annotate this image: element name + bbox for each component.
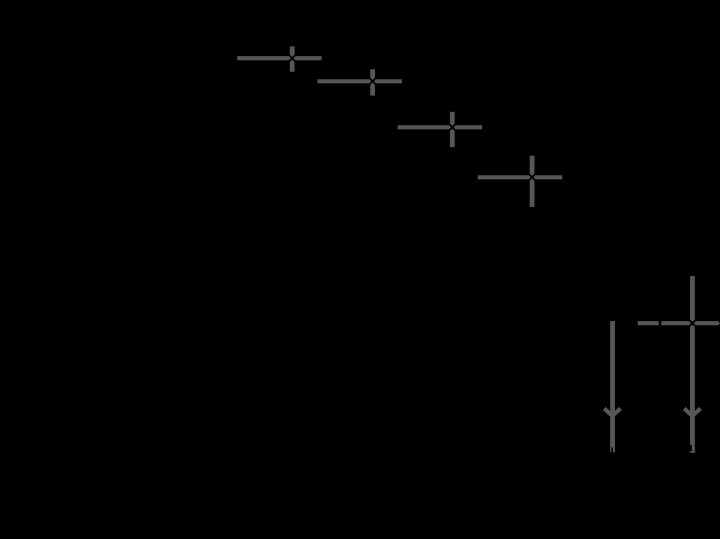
gray cap nub at arrow A6 bottom [690,451,696,453]
black x marker M1 [288,54,296,62]
black tick cutting P6 x-error bar [659,318,661,330]
data point P4 x-error bar [478,175,562,179]
data point P3 y-error bar [450,112,455,147]
data point P2 y-error bar [370,69,375,95]
upper limit arrow A5 head right wing [612,408,620,415]
data point P1 y-error bar [290,46,295,72]
upper limit arrow A6 head right wing [692,408,700,415]
data point P6 upper y-error / arrow A6 shaft [690,276,695,452]
data point P1 x-error bar [237,56,321,60]
black notch at arrow A5 tip [611,448,613,453]
data point P3 x-error bar [398,125,482,129]
black x marker M4 [528,173,536,181]
black x marker M2 [369,77,377,85]
data point P4 y-error bar [530,156,535,207]
data point P2 x-error bar [318,79,402,83]
black x marker M6 [688,319,696,327]
black x marker M3 [448,123,456,131]
upper limit arrow A5 head left wing [604,408,612,415]
data point P6 x-error bar [638,321,720,325]
black notch at arrow A6 tip [690,445,692,451]
black x marker M7 partial at right edge [717,319,720,327]
upper limit arrow A5 shaft [610,321,615,452]
upper limit arrow A6 head left wing [684,408,692,415]
